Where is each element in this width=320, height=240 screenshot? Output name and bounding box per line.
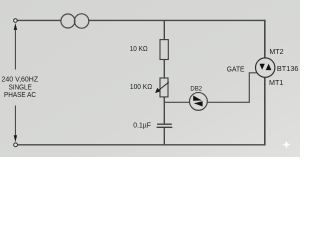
lamp/load circle 2 bbox=[74, 14, 88, 28]
svg-text:MT2: MT2 bbox=[269, 47, 283, 56]
svg-text:0.1µF: 0.1µF bbox=[133, 120, 151, 129]
wire gate line left of diac bbox=[164, 101, 190, 103]
svg-text:100 KΩ: 100 KΩ bbox=[130, 82, 153, 91]
wire right branch MT1 side bbox=[264, 77, 266, 145]
diac triangle lower (points left) bbox=[194, 101, 203, 106]
wire middle branch pot to capacitor bbox=[163, 97, 165, 125]
capacitor C1 bottom plate bbox=[157, 126, 173, 128]
wire right branch MT2 side bbox=[264, 20, 266, 58]
svg-text:PHASE AC: PHASE AC bbox=[4, 92, 36, 99]
svg-text:DB2: DB2 bbox=[190, 86, 202, 93]
wire middle branch top bbox=[163, 20, 165, 39]
svg-text:SINGLE: SINGLE bbox=[9, 84, 32, 91]
label 240 V,60HZ SINGLE PHASE AC bbox=[2, 77, 39, 100]
source arrow up (top arrowhead of AC supply indicator) bbox=[14, 23, 17, 70]
potentiometer wiper arrow bbox=[155, 82, 169, 93]
wire top rail left bbox=[17, 19, 61, 21]
wire gate line right of diac bbox=[207, 73, 257, 103]
wire middle branch between resistors bbox=[163, 59, 165, 78]
lamp/load circle 1 bbox=[61, 14, 75, 28]
node B bottom-left terminal circle bbox=[14, 143, 18, 147]
svg-text:10 KΩ: 10 KΩ bbox=[130, 44, 148, 53]
decorative sparkle bbox=[283, 141, 291, 149]
svg-text:MT1: MT1 bbox=[269, 78, 283, 87]
wire bottom rail bbox=[18, 144, 266, 146]
potentiometer R2 100 KΩ box bbox=[160, 78, 168, 97]
triac triangle left (points down) bbox=[260, 64, 265, 70]
capacitor C1 top plate bbox=[157, 123, 172, 125]
svg-text:240 V,60HZ: 240 V,60HZ bbox=[2, 77, 39, 84]
wire capacitor to bottom rail bbox=[163, 127, 165, 145]
source arrow down (bottom arrowhead of AC supply indicator) bbox=[14, 106, 17, 143]
svg-text:BT136: BT136 bbox=[277, 64, 299, 73]
diac triangle upper (points right) bbox=[193, 96, 202, 101]
diac DB2 circle bbox=[190, 93, 208, 111]
triac U1 circle bbox=[256, 58, 275, 77]
wire top rail right bbox=[88, 19, 265, 21]
triac triangle right (points up) bbox=[266, 64, 272, 70]
svg-text:GATE: GATE bbox=[227, 65, 245, 73]
resistor R1 10 KΩ box bbox=[160, 40, 168, 60]
node A top-left terminal circle bbox=[14, 19, 18, 23]
